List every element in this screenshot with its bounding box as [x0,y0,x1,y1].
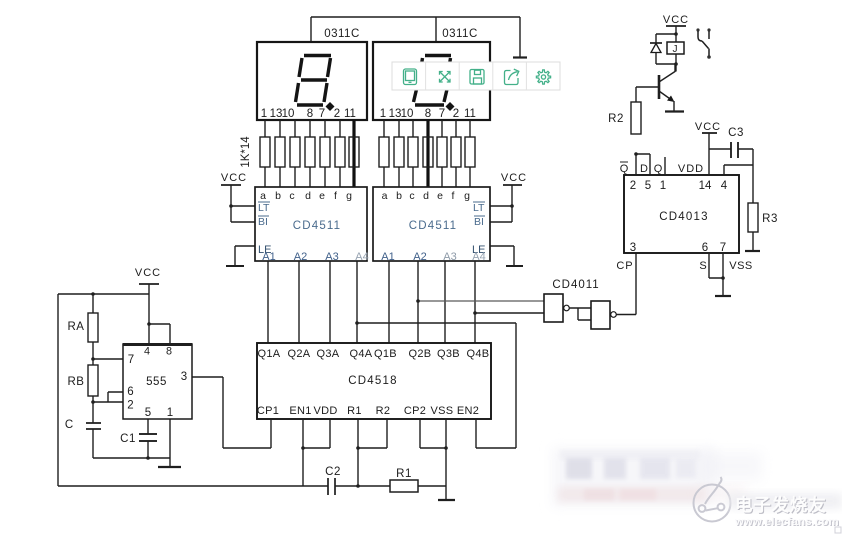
svg-text:CP: CP [616,260,633,272]
resistor R3 [748,203,758,232]
svg-text:Q1A: Q1A [258,348,281,360]
svg-text:8: 8 [307,108,313,120]
blurred watermark smudge [552,447,762,507]
svg-text:11: 11 [464,108,476,120]
svg-text:CD4518: CD4518 [348,375,397,387]
flipflop U5 CD4013 box [624,175,739,253]
wire relay branch [656,26,676,72]
resistor network R d1 [305,137,315,167]
capacitor C [86,423,101,429]
DS1 pin number labels 1 13 10 8 7 2 11 [261,108,356,120]
svg-text:4: 4 [721,180,728,192]
wire U3.A2 to Q2B [417,261,419,343]
resistor network R e2 [437,137,447,167]
svg-text:6: 6 [127,386,133,398]
svg-text:VSS: VSS [431,405,454,417]
wire U2.A1 to Q1A [267,261,269,343]
node Q2B tap [416,299,420,303]
svg-text:11: 11 [344,108,356,120]
svg-text:C1: C1 [120,433,136,445]
ground emitter bar [665,110,684,112]
svg-text:e: e [437,190,443,202]
ground LE left bar [226,265,244,267]
resistor network R c2 [408,137,418,167]
wire pin7 [93,358,123,360]
wire U2.A3 to Q3A [329,261,331,343]
svg-text:f: f [452,190,455,202]
svg-text:13: 13 [389,108,402,120]
svg-text:CP1: CP1 [257,405,279,417]
svg-text:R3: R3 [762,213,778,225]
wire R3 bottom [752,232,754,251]
wire U3.A3 to Q3B [444,261,446,343]
svg-text:g: g [464,190,470,202]
svg-text:5: 5 [145,407,151,419]
DS1 digit 8 segments [296,56,332,106]
toolbar icon gear [536,70,550,84]
node VSS tie [444,446,448,450]
ground VSS bar [715,295,731,297]
svg-text:f: f [334,190,337,202]
U3 segment input labels a-g [382,190,471,202]
svg-text:RA: RA [68,321,85,333]
transistor Q1 base bar [658,75,661,99]
node relay top [674,32,678,36]
node Q4B tap [473,311,477,315]
wire pin4 to R3 top [724,149,753,203]
ground R3 bar [745,250,760,252]
svg-text:A2: A2 [413,251,426,263]
svg-text:VSS: VSS [729,260,753,272]
svg-text:C: C [65,419,73,431]
svg-text:Q2B: Q2B [409,348,432,360]
svg-text:VDD: VDD [678,163,704,175]
resistor network R f1 [335,137,345,167]
svg-text:LT: LT [473,202,485,214]
wire pin7 VSS to ground [722,253,724,296]
svg-text:A3: A3 [325,251,338,263]
svg-text:CD4013: CD4013 [659,211,708,223]
nand gate G1 box [544,294,563,322]
svg-text:VCC: VCC [135,267,161,279]
svg-text:BI: BI [474,216,484,228]
svg-text:a: a [382,190,388,202]
BCD decoder U3 CD4511 box [373,187,490,261]
wire LE right to ground [490,246,514,266]
relay coil J box [667,42,684,54]
node pin4 junction [147,322,151,326]
svg-text:c: c [409,190,414,202]
DS1 decimal point [326,102,335,111]
wire display common top bus [311,17,520,57]
wire EN1 to VDD tie [303,419,330,448]
toolbar icon share [505,71,519,85]
svg-text:S: S [699,260,706,272]
DS2 decimal point [446,102,455,111]
Q1 emitter with arrow [659,91,673,101]
wire G1 out to G2 in [570,308,592,320]
svg-text:Q1B: Q1B [374,348,397,360]
watermark logo circle [694,477,731,522]
svg-text:2: 2 [334,108,340,120]
svg-text:a: a [260,190,266,202]
svg-text:RB: RB [68,376,85,388]
wire DS1 segment leads [265,120,340,187]
ground VSS bar [438,499,455,501]
node U3 LT junction [510,204,514,208]
svg-text:13: 13 [270,108,283,120]
wire VCC to LT BI of U2 [231,206,255,222]
svg-text:7: 7 [720,242,726,254]
diode D1 flyback [650,42,662,44]
wire emitter to ground [673,101,675,111]
node R1 rail junction [356,484,360,488]
wire R1 down [357,419,359,486]
svg-text:R1: R1 [396,468,412,480]
node pin7 junction [91,357,95,361]
svg-text:CP2: CP2 [404,405,426,417]
switch K contacts [696,28,699,31]
wire U2.A2 to Q2A [298,261,300,343]
svg-text:D: D [640,163,648,175]
resistor network R a1 [260,137,270,167]
svg-text:7: 7 [128,354,134,366]
toolbar icon mobile [404,69,417,85]
resistor network R b1 [275,137,285,167]
svg-text:Q4A: Q4A [350,348,373,360]
svg-text:Q: Q [620,163,629,175]
node pin2 junction [91,400,95,404]
wire G2 out to CP [617,253,637,315]
svg-text:3: 3 [181,371,187,383]
U2 segment input labels a-g [260,190,352,202]
svg-text:VCC: VCC [695,121,721,133]
svg-text:A2: A2 [294,251,307,263]
wire Q4A to EN2 [357,323,516,448]
node relay bottom [674,62,678,66]
svg-text:1: 1 [167,407,173,419]
wire LE left to ground [235,246,255,266]
wire Q4B tap to gate input [475,312,544,314]
watermark band [728,493,842,509]
svg-text:R2: R2 [376,405,391,417]
svg-text:b: b [396,190,402,202]
svg-text:www.elecfans.com: www.elecfans.com [734,516,839,528]
wire Q pin1 stub [664,157,666,175]
svg-text:c: c [289,190,294,202]
svg-text:5: 5 [645,180,651,192]
svg-text:CD4511: CD4511 [293,220,342,232]
resistor RB [88,365,98,396]
svg-text:g: g [346,190,352,202]
wire CP2 to VSS tie [420,419,446,448]
resistor network R a2 [379,137,389,167]
wire pin6 tie [108,392,123,402]
resistor network R b2 [394,137,404,167]
wire EN1 down [302,419,304,486]
svg-text:8: 8 [425,108,431,120]
DS2 digit 0 segments [414,56,452,106]
svg-text:VCC: VCC [663,14,689,26]
svg-text:2: 2 [630,180,636,192]
svg-text:VCC: VCC [221,172,247,184]
svg-text:8: 8 [166,346,172,358]
svg-text:10: 10 [401,108,414,120]
resistor network R g2 [465,137,475,167]
svg-text:555: 555 [146,376,167,388]
svg-text:1: 1 [261,108,267,120]
watermark corner mark [835,527,841,533]
wire pin14 to VCC [708,133,710,175]
U5 pin number labels [630,180,728,254]
svg-text:LT: LT [258,202,270,214]
node C1 bottom junction [146,456,150,460]
svg-text:10: 10 [282,108,295,120]
svg-text:VCC: VCC [501,172,527,184]
capacitor C3 [709,142,753,158]
timer U1 555 box [123,344,192,419]
svg-text:Q2A: Q2A [288,348,311,360]
resistor R1 [390,480,418,492]
svg-text:J: J [673,44,678,55]
svg-text:0311C: 0311C [324,28,360,40]
ground 555 bar [158,466,181,468]
svg-text:C3: C3 [728,127,744,139]
toolbar icon expand arrows [440,72,451,83]
node Qbar junction [634,152,638,156]
wire pin6 S tie [709,253,723,278]
svg-text:d: d [305,190,311,202]
svg-text:7: 7 [319,108,325,120]
wire VCC to LT BI of U3 [490,206,512,222]
svg-text:Q4B: Q4B [467,348,490,360]
node Q4A tap [355,321,359,325]
wire R1 to R2 tie [358,419,387,448]
svg-text:6: 6 [702,242,708,254]
BCD decoder U2 CD4511 box [255,187,367,261]
DS2 pin number labels 1 13 10 8 7 2 11 [380,108,476,120]
svg-text:1K*14: 1K*14 [240,136,252,168]
svg-text:CD4511: CD4511 [409,220,458,232]
wire DS2 pin8 d lead thick [426,120,429,187]
wire pin4 pin8 VCC [149,294,170,344]
wire pin1 to ground [169,419,171,467]
svg-text:Q: Q [654,163,663,175]
svg-text:A1: A1 [381,251,394,263]
resistor network R d2 [423,137,433,167]
7-segment display DS1 0311C [257,42,367,120]
svg-text:EN2: EN2 [457,405,479,417]
svg-text:7: 7 [439,108,445,120]
resistor network R c1 [290,137,300,167]
node pin7 junction [721,276,725,280]
wire U3.A1 to Q1B [388,261,390,343]
svg-text:EN1: EN1 [289,405,311,417]
svg-text:4: 4 [144,346,150,358]
svg-text:电子发烧友: 电子发烧友 [735,495,827,515]
U1 pin labels [127,346,187,420]
node RA top [91,292,95,296]
toolbar icon save floppy [470,70,484,85]
wire Qbar to D tie and R2 [636,154,650,175]
capacitor C2 [328,478,335,495]
U2 pin labels A1 A2 A3 A4 [262,251,368,263]
svg-text:R2: R2 [608,113,624,125]
wire pin2 [93,401,123,403]
svg-text:d: d [423,190,429,202]
wire U2.A4 to Q4A [356,261,358,343]
svg-text:14: 14 [699,180,712,192]
svg-text:BI: BI [258,216,268,228]
counter U4 CD4518 box [257,343,491,419]
wire DS2 segment leads [384,120,470,187]
svg-text:1: 1 [660,180,666,192]
svg-text:C2: C2 [325,466,341,478]
svg-text:3: 3 [630,242,636,254]
U4 bottom pin labels [257,405,479,417]
wire CP1 to 555 out [192,377,271,448]
node R1 tie [356,446,360,450]
svg-text:1: 1 [380,108,386,120]
svg-text:0311C: 0311C [442,28,478,40]
wire VSS down to ground [445,419,447,500]
wire DS1 pin11 g lead thick [352,120,355,187]
wire bottom feedback rail [58,294,446,486]
resistor network R f2 [451,137,461,167]
svg-text:Q3B: Q3B [437,348,460,360]
capacitor C1 [139,419,157,458]
G2 output bubble [611,312,617,318]
wire RA RB branch [92,294,94,458]
svg-text:A1: A1 [262,251,275,263]
G1 output bubble [564,305,570,311]
Q1 collector [659,64,675,82]
switch K blade [702,41,709,56]
resistor network R g1 [349,137,359,167]
wire EN2 down [475,419,477,448]
U3 pin labels A1 A2 A3 A4 [381,251,485,263]
wire C bottom to pin1 rail [93,457,170,459]
wire VCC rail [58,293,149,295]
ground common cathode bar [513,56,527,58]
wire R2 to base [636,87,658,102]
toolbar overlay panel [392,62,560,90]
svg-text:R1: R1 [347,405,362,417]
svg-text:e: e [319,190,325,202]
U4 output labels Q1A-Q4B [258,348,490,360]
resistor R2 [631,102,641,134]
svg-text:2: 2 [127,400,133,412]
svg-text:b: b [275,190,281,202]
svg-text:2: 2 [453,108,459,120]
7-segment display DS2 0311C [373,42,490,120]
svg-text:Q3A: Q3A [317,348,340,360]
ground LE right bar [506,265,523,267]
resistor RA [88,313,98,342]
node EN1 tie [301,446,305,450]
svg-text:CD4011: CD4011 [552,279,599,291]
nand gate G2 box [591,301,610,329]
wire U3.A4 to Q4B [474,261,476,343]
node LT junction [229,204,233,208]
svg-text:A4: A4 [472,251,485,263]
svg-text:VDD: VDD [313,405,337,417]
wire Q2B tap to gate input [418,300,544,302]
resistor network R e1 [320,137,330,167]
